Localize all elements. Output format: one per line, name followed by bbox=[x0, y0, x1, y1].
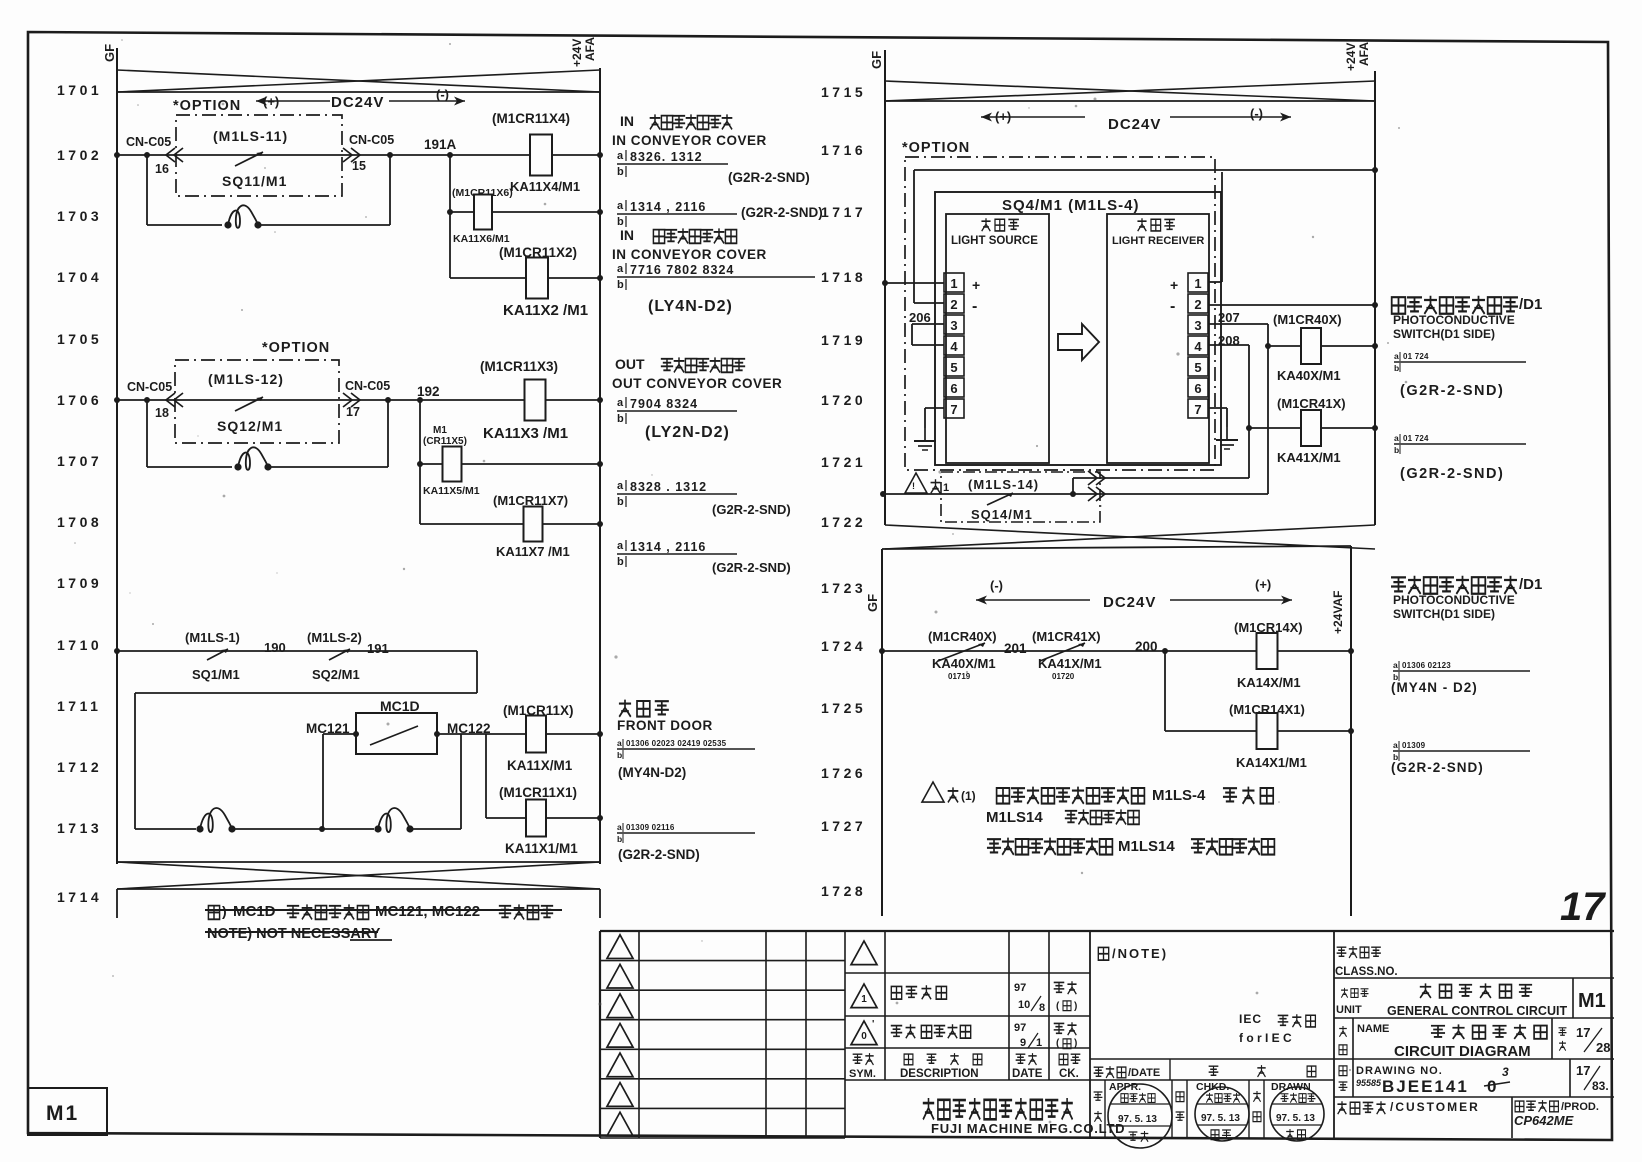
svg-text:a: a bbox=[617, 822, 622, 832]
svg-text:(M1CR40X): (M1CR40X) bbox=[1273, 312, 1342, 327]
svg-text:UNIT: UNIT bbox=[1336, 1004, 1362, 1016]
svg-text:1713: 1713 bbox=[57, 820, 102, 836]
svg-text:3: 3 bbox=[950, 318, 957, 333]
svg-text:*OPTION: *OPTION bbox=[902, 140, 970, 156]
svg-text:1: 1 bbox=[1194, 276, 1201, 291]
svg-text:1723: 1723 bbox=[821, 580, 866, 596]
svg-text:+24V: +24V bbox=[570, 39, 584, 67]
svg-text:6: 6 bbox=[1194, 381, 1201, 396]
svg-text:CIRCUIT DIAGRAM: CIRCUIT DIAGRAM bbox=[1394, 1043, 1531, 1060]
svg-text:8328 . 1312: 8328 . 1312 bbox=[630, 480, 707, 494]
svg-text:a: a bbox=[617, 540, 624, 552]
svg-text:1721: 1721 bbox=[821, 454, 866, 470]
svg-text:+: + bbox=[972, 277, 980, 293]
svg-text:1718: 1718 bbox=[821, 269, 866, 285]
svg-text:191: 191 bbox=[367, 641, 389, 656]
svg-text:SQ14/M1: SQ14/M1 bbox=[971, 507, 1033, 522]
svg-text:(G2R-2-SND): (G2R-2-SND) bbox=[1400, 466, 1504, 482]
svg-text:01719: 01719 bbox=[948, 672, 971, 681]
svg-text:-: - bbox=[1170, 298, 1175, 315]
svg-text:/NOTE): /NOTE) bbox=[1112, 946, 1168, 961]
svg-text:b: b bbox=[617, 166, 624, 178]
svg-text:(G2R-2-SND): (G2R-2-SND) bbox=[712, 502, 791, 517]
svg-text:0: 0 bbox=[861, 1031, 867, 1042]
svg-text:LIGHT RECEIVER: LIGHT RECEIVER bbox=[1112, 235, 1204, 247]
svg-text:1: 1 bbox=[1036, 1037, 1042, 1049]
svg-text:FRONT DOOR: FRONT DOOR bbox=[617, 718, 713, 733]
svg-text:MC1D: MC1D bbox=[380, 698, 420, 714]
svg-text:10: 10 bbox=[1018, 999, 1030, 1011]
svg-text:KA41X/M1: KA41X/M1 bbox=[1038, 656, 1102, 671]
svg-text:M1: M1 bbox=[46, 1102, 79, 1125]
svg-text:f o r I E C: f o r I E C bbox=[1239, 1031, 1292, 1045]
svg-text:(M1LS-2): (M1LS-2) bbox=[307, 630, 362, 645]
svg-text:KA11X/M1: KA11X/M1 bbox=[507, 758, 573, 773]
svg-text:1703: 1703 bbox=[57, 208, 102, 224]
svg-text:KA11X2 /M1: KA11X2 /M1 bbox=[503, 302, 588, 319]
svg-text:(-): (-) bbox=[1250, 106, 1263, 121]
svg-text:7716 7802 8324: 7716 7802 8324 bbox=[630, 263, 734, 277]
svg-text:MC121, MC122: MC121, MC122 bbox=[375, 903, 480, 920]
svg-text:5: 5 bbox=[950, 360, 957, 375]
svg-text:83.: 83. bbox=[1592, 1079, 1609, 1093]
svg-text:a: a bbox=[617, 200, 624, 212]
svg-text:97. 5. 13: 97. 5. 13 bbox=[1118, 1114, 1157, 1125]
svg-text:01306 02123: 01306 02123 bbox=[1402, 661, 1451, 670]
svg-text:DC24V: DC24V bbox=[1103, 594, 1156, 611]
svg-text:KA41X/M1: KA41X/M1 bbox=[1277, 450, 1341, 465]
svg-text:(M1CR11X4): (M1CR11X4) bbox=[492, 111, 570, 126]
svg-text:/DATE: /DATE bbox=[1128, 1067, 1160, 1079]
svg-text:01309 02116: 01309 02116 bbox=[626, 823, 675, 832]
svg-text:28: 28 bbox=[1596, 1040, 1610, 1055]
svg-text:7904 8324: 7904 8324 bbox=[630, 397, 698, 411]
svg-text:7: 7 bbox=[950, 402, 957, 417]
svg-text:192: 192 bbox=[417, 384, 440, 399]
svg-text:M1LS14: M1LS14 bbox=[986, 809, 1043, 826]
svg-text:M1LS14: M1LS14 bbox=[1118, 838, 1175, 855]
svg-text:16: 16 bbox=[155, 162, 169, 176]
svg-text:GENERAL CONTROL CIRCUIT: GENERAL CONTROL CIRCUIT bbox=[1387, 1004, 1567, 1018]
svg-text:a: a bbox=[617, 397, 624, 409]
svg-text:+: + bbox=[1170, 277, 1178, 293]
svg-text:IN CONVEYOR COVER: IN CONVEYOR COVER bbox=[612, 133, 767, 148]
svg-text:MC122: MC122 bbox=[447, 721, 491, 736]
svg-text:b: b bbox=[617, 413, 624, 425]
svg-text:IN: IN bbox=[620, 227, 634, 243]
svg-text:a: a bbox=[617, 263, 624, 275]
svg-text:191A: 191A bbox=[424, 137, 457, 152]
svg-text:AFA: AFA bbox=[1357, 42, 1371, 66]
svg-text:DRAWING NO.: DRAWING NO. bbox=[1356, 1065, 1443, 1077]
svg-text:1709: 1709 bbox=[57, 575, 102, 591]
svg-text:1716: 1716 bbox=[821, 142, 866, 158]
svg-text:95585: 95585 bbox=[1356, 1078, 1382, 1088]
svg-text:DC24V: DC24V bbox=[331, 94, 384, 111]
svg-text:b: b bbox=[1394, 363, 1399, 373]
svg-text:DC24V: DC24V bbox=[1108, 116, 1161, 133]
svg-text:01 724: 01 724 bbox=[1403, 434, 1429, 443]
svg-text:3: 3 bbox=[1502, 1065, 1509, 1079]
svg-text:(MY4N - D2): (MY4N - D2) bbox=[1391, 680, 1478, 695]
svg-text:KA40X/M1: KA40X/M1 bbox=[1277, 368, 1341, 383]
svg-text:0: 0 bbox=[1487, 1077, 1496, 1096]
svg-text:1: 1 bbox=[943, 482, 949, 494]
svg-text:KA11X3 /M1: KA11X3 /M1 bbox=[483, 425, 568, 442]
svg-text:4: 4 bbox=[950, 339, 958, 354]
svg-text:(M1CR41X): (M1CR41X) bbox=[1032, 629, 1101, 644]
svg-text:(G2R-2-SND): (G2R-2-SND) bbox=[1400, 383, 1504, 399]
svg-text:(M1LS-11): (M1LS-11) bbox=[213, 128, 288, 144]
svg-text:(M1CR11X1): (M1CR11X1) bbox=[499, 785, 577, 800]
svg-text:5: 5 bbox=[1194, 360, 1201, 375]
svg-text:(M1LS-14): (M1LS-14) bbox=[968, 477, 1039, 492]
svg-text:97: 97 bbox=[1014, 982, 1026, 994]
svg-text:(MY4N-D2): (MY4N-D2) bbox=[618, 765, 686, 780]
svg-text:(G2R-2-SND): (G2R-2-SND) bbox=[728, 170, 810, 185]
svg-text:SWITCH(D1 SIDE): SWITCH(D1 SIDE) bbox=[1393, 607, 1495, 621]
svg-text:7: 7 bbox=[1194, 402, 1201, 417]
svg-text:97. 5. 13: 97. 5. 13 bbox=[1276, 1113, 1315, 1124]
svg-text:IN CONVEYOR COVER: IN CONVEYOR COVER bbox=[612, 247, 767, 262]
svg-text:97. 5. 13: 97. 5. 13 bbox=[1201, 1113, 1240, 1124]
svg-text:KA11X1/M1: KA11X1/M1 bbox=[505, 841, 578, 856]
svg-text:DESCRIPTION: DESCRIPTION bbox=[900, 1068, 979, 1080]
svg-text:(G2R-2-SND): (G2R-2-SND) bbox=[1391, 760, 1484, 775]
svg-text:*OPTION: *OPTION bbox=[262, 340, 330, 356]
svg-text:-: - bbox=[972, 298, 977, 315]
svg-text:1314 , 2116: 1314 , 2116 bbox=[630, 540, 706, 554]
svg-text:a: a bbox=[1394, 351, 1399, 361]
svg-text:FUJI MACHINE MFG.CO.LTD: FUJI MACHINE MFG.CO.LTD bbox=[931, 1121, 1125, 1136]
svg-text:1715: 1715 bbox=[821, 84, 866, 100]
svg-text:(: ( bbox=[1056, 1001, 1060, 1012]
svg-text:b: b bbox=[617, 556, 624, 568]
svg-text:a: a bbox=[617, 150, 624, 162]
svg-text:17: 17 bbox=[346, 405, 360, 419]
svg-text:(-): (-) bbox=[436, 87, 449, 102]
svg-text:(CR11X5): (CR11X5) bbox=[423, 436, 467, 447]
svg-text:KA14X1/M1: KA14X1/M1 bbox=[1236, 755, 1307, 770]
svg-text:(M1LS-1): (M1LS-1) bbox=[185, 630, 240, 645]
svg-text:CN-C05: CN-C05 bbox=[127, 380, 172, 394]
svg-text:OUT CONVEYOR COVER: OUT CONVEYOR COVER bbox=[612, 376, 782, 391]
svg-text:(-): (-) bbox=[990, 578, 1003, 593]
svg-text:3: 3 bbox=[1194, 318, 1201, 333]
svg-text:SQ4/M1 (M1LS-4): SQ4/M1 (M1LS-4) bbox=[1002, 197, 1140, 214]
svg-text:M1: M1 bbox=[1578, 990, 1606, 1012]
svg-text:6: 6 bbox=[950, 381, 957, 396]
svg-text:IN: IN bbox=[620, 113, 634, 129]
svg-text:b: b bbox=[617, 834, 622, 844]
svg-text:': ' bbox=[872, 1019, 874, 1030]
svg-text:/D1: /D1 bbox=[1519, 296, 1542, 313]
svg-text:1708: 1708 bbox=[57, 514, 102, 530]
svg-text:8: 8 bbox=[1039, 1002, 1045, 1014]
svg-text:17: 17 bbox=[1560, 885, 1606, 929]
svg-text:1717: 1717 bbox=[821, 204, 866, 220]
svg-text:IEC: IEC bbox=[1239, 1012, 1262, 1026]
svg-text:1727: 1727 bbox=[821, 818, 866, 834]
svg-text:): ) bbox=[1074, 1001, 1077, 1012]
svg-text:SQ2/M1: SQ2/M1 bbox=[312, 667, 360, 682]
svg-text:+24V: +24V bbox=[1344, 43, 1358, 71]
svg-text:BJEE141: BJEE141 bbox=[1382, 1077, 1469, 1096]
svg-text:1722: 1722 bbox=[821, 514, 866, 530]
svg-text:CN-C05: CN-C05 bbox=[345, 379, 390, 393]
svg-text:1701: 1701 bbox=[57, 82, 102, 98]
svg-text:CK.: CK. bbox=[1059, 1068, 1079, 1080]
svg-text:SWITCH(D1 SIDE): SWITCH(D1 SIDE) bbox=[1393, 327, 1495, 341]
svg-text:1705: 1705 bbox=[57, 331, 102, 347]
svg-text:1712: 1712 bbox=[57, 759, 102, 775]
svg-text:PHOTOCONDUCTIVE: PHOTOCONDUCTIVE bbox=[1393, 313, 1515, 327]
svg-text:(M1CR41X): (M1CR41X) bbox=[1277, 396, 1346, 411]
svg-text:1714: 1714 bbox=[57, 889, 102, 905]
svg-text:200: 200 bbox=[1135, 639, 1158, 654]
svg-text:AFA: AFA bbox=[583, 37, 597, 61]
svg-text:/D1: /D1 bbox=[1519, 576, 1542, 593]
svg-text:MC121: MC121 bbox=[306, 721, 350, 736]
svg-text:201: 201 bbox=[1004, 641, 1027, 656]
svg-text:1: 1 bbox=[950, 276, 957, 291]
svg-text:OUT: OUT bbox=[615, 356, 645, 372]
svg-text:1719: 1719 bbox=[821, 332, 866, 348]
svg-text:2: 2 bbox=[1194, 297, 1201, 312]
svg-text:1706: 1706 bbox=[57, 392, 102, 408]
svg-text:LIGHT SOURCE: LIGHT SOURCE bbox=[951, 235, 1038, 247]
svg-text:17: 17 bbox=[1576, 1025, 1590, 1040]
svg-text:GF: GF bbox=[869, 51, 884, 69]
svg-text:GF: GF bbox=[865, 594, 880, 612]
svg-text:b: b bbox=[617, 279, 624, 291]
svg-text:CP642ME: CP642ME bbox=[1514, 1113, 1574, 1128]
svg-text:(LY2N-D2): (LY2N-D2) bbox=[645, 424, 730, 441]
svg-text:1702: 1702 bbox=[57, 147, 102, 163]
svg-text:17: 17 bbox=[1576, 1063, 1590, 1078]
svg-text:KA11X5/M1: KA11X5/M1 bbox=[423, 485, 480, 497]
svg-text:1728: 1728 bbox=[821, 883, 866, 899]
svg-text:01720: 01720 bbox=[1052, 672, 1075, 681]
svg-text:MC1D: MC1D bbox=[233, 903, 276, 920]
svg-text:1314 , 2116: 1314 , 2116 bbox=[630, 200, 706, 214]
svg-text:CN-C05: CN-C05 bbox=[349, 133, 394, 147]
svg-text:/PROD.: /PROD. bbox=[1561, 1101, 1599, 1113]
svg-text:97: 97 bbox=[1014, 1022, 1026, 1034]
svg-text:(G2R-2-SND): (G2R-2-SND) bbox=[712, 560, 791, 575]
svg-text:01 724: 01 724 bbox=[1403, 352, 1429, 361]
svg-text:2: 2 bbox=[950, 297, 957, 312]
svg-text:SQ1/M1: SQ1/M1 bbox=[192, 667, 240, 682]
svg-text:1707: 1707 bbox=[57, 453, 102, 469]
svg-text:a: a bbox=[1393, 740, 1398, 750]
svg-text:PHOTOCONDUCTIVE: PHOTOCONDUCTIVE bbox=[1393, 593, 1515, 607]
svg-text:/CUSTOMER: /CUSTOMER bbox=[1390, 1100, 1480, 1114]
svg-text:01309: 01309 bbox=[1402, 741, 1426, 750]
svg-text:18: 18 bbox=[155, 406, 169, 420]
svg-text:KA11X6/M1: KA11X6/M1 bbox=[453, 233, 510, 245]
svg-text:(M1CR40X): (M1CR40X) bbox=[928, 629, 997, 644]
svg-text:M1LS-4: M1LS-4 bbox=[1152, 787, 1206, 804]
svg-text:1711: 1711 bbox=[57, 698, 101, 714]
svg-text:8326. 1312: 8326. 1312 bbox=[630, 150, 703, 164]
svg-text:b: b bbox=[617, 750, 622, 760]
svg-text:(1): (1) bbox=[961, 789, 976, 803]
svg-text:KA11X7 /M1: KA11X7 /M1 bbox=[496, 544, 570, 559]
svg-text:+24VAF: +24VAF bbox=[1331, 591, 1345, 634]
svg-text:9: 9 bbox=[1020, 1037, 1026, 1049]
svg-text:(M1LS-12): (M1LS-12) bbox=[208, 371, 284, 387]
svg-text:4: 4 bbox=[1194, 339, 1202, 354]
svg-text:DATE: DATE bbox=[1012, 1068, 1043, 1080]
svg-text:SYM.: SYM. bbox=[849, 1068, 876, 1080]
svg-text:KA40X/M1: KA40X/M1 bbox=[932, 656, 996, 671]
svg-text:a: a bbox=[1394, 433, 1399, 443]
svg-text:*OPTION: *OPTION bbox=[173, 98, 241, 114]
svg-text:): ) bbox=[1074, 1038, 1077, 1049]
svg-text:GF: GF bbox=[102, 44, 117, 62]
svg-text:CLASS.NO.: CLASS.NO. bbox=[1335, 966, 1398, 978]
svg-text:SQ11/M1: SQ11/M1 bbox=[222, 173, 287, 189]
svg-text:!: ! bbox=[912, 481, 915, 491]
svg-text:a: a bbox=[617, 738, 622, 748]
svg-text:M1: M1 bbox=[433, 425, 447, 436]
svg-text:CN-C05: CN-C05 bbox=[126, 135, 171, 149]
svg-text:NAME: NAME bbox=[1357, 1023, 1389, 1035]
svg-text:1724: 1724 bbox=[821, 638, 866, 654]
svg-text:b: b bbox=[617, 496, 624, 508]
svg-text:(LY4N-D2): (LY4N-D2) bbox=[648, 298, 733, 315]
svg-text:KA11X4/M1: KA11X4/M1 bbox=[510, 179, 580, 194]
svg-text:1726: 1726 bbox=[821, 765, 866, 781]
svg-text:(M1CR11X3): (M1CR11X3) bbox=[480, 359, 558, 374]
svg-text:(G2R-2-SND): (G2R-2-SND) bbox=[618, 847, 700, 862]
svg-text:207: 207 bbox=[1218, 310, 1240, 325]
svg-text:1710: 1710 bbox=[57, 637, 102, 653]
svg-text:190: 190 bbox=[264, 640, 286, 655]
svg-text:1725: 1725 bbox=[821, 700, 866, 716]
svg-text:KA14X/M1: KA14X/M1 bbox=[1237, 675, 1301, 690]
svg-text:b: b bbox=[1394, 445, 1399, 455]
svg-text:a: a bbox=[1393, 660, 1398, 670]
svg-text:SQ12/M1: SQ12/M1 bbox=[217, 418, 283, 434]
svg-text:1704: 1704 bbox=[57, 269, 102, 285]
svg-text:206: 206 bbox=[909, 310, 931, 325]
svg-text:a: a bbox=[617, 480, 624, 492]
svg-text:1720: 1720 bbox=[821, 392, 866, 408]
svg-text:15: 15 bbox=[352, 159, 366, 173]
svg-text:1: 1 bbox=[861, 994, 867, 1005]
svg-text:(+): (+) bbox=[1255, 577, 1271, 592]
svg-text:01306 02023 02419 02535: 01306 02023 02419 02535 bbox=[626, 739, 727, 748]
svg-text:(G2R-2-SND): (G2R-2-SND) bbox=[741, 205, 823, 220]
